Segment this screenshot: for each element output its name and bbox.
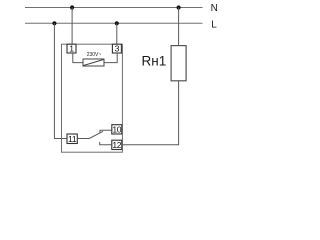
- svg-text:N: N: [211, 3, 218, 14]
- resistor Rн1 (load): [171, 46, 186, 81]
- varistor (coil) 230V~: [83, 59, 104, 66]
- terminal 12: [112, 140, 122, 150]
- svg-text:L: L: [211, 19, 217, 30]
- device box: [62, 44, 123, 152]
- wire N to load Rн1: [178, 8, 180, 46]
- svg-text:10: 10: [112, 124, 121, 134]
- wire N line: [25, 7, 203, 9]
- terminal 3: [112, 44, 121, 54]
- junction dot on L at x=54.4: [52, 21, 56, 25]
- wire terminal 1 to varistor: [73, 53, 83, 63]
- svg-text:Rн1: Rн1: [142, 54, 167, 69]
- terminal 10: [112, 124, 122, 134]
- wire terminal 3 to varistor: [104, 53, 117, 63]
- switch arm (moving contact): [89, 131, 103, 138]
- fixed contact of terminal 12: [100, 142, 112, 145]
- svg-text:3: 3: [115, 44, 120, 54]
- wire terminal 11 to switch pivot: [77, 138, 89, 140]
- wire N to terminal 1: [71, 8, 73, 45]
- junction dot on N at x=72: [70, 5, 74, 9]
- terminal 11: [67, 134, 77, 144]
- wire L to terminal 3: [116, 23, 118, 44]
- fixed contact of terminal 10: [100, 130, 112, 133]
- wire L to terminal 11: [54, 23, 67, 138]
- junction dot on N at x=178.7 (load branch): [177, 5, 181, 9]
- svg-text:12: 12: [112, 140, 121, 150]
- wire L line: [25, 22, 203, 24]
- svg-text:11: 11: [68, 134, 77, 144]
- svg-text:1: 1: [69, 44, 74, 54]
- wire load to terminal 12: [122, 81, 179, 145]
- terminal 1: [67, 44, 76, 54]
- svg-text:230V~: 230V~: [87, 52, 102, 58]
- junction dot on L at x=116.8: [115, 21, 119, 25]
